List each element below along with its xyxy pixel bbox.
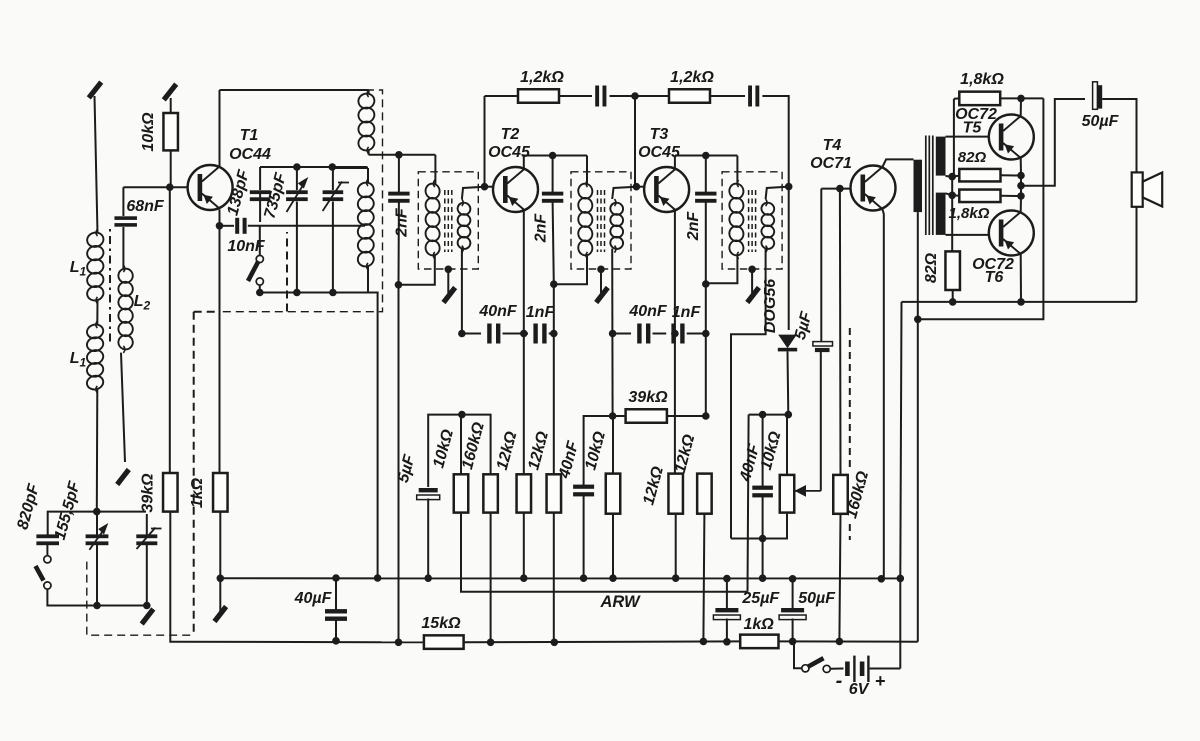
wire switch to oscillator bottom line — [259, 285, 261, 293]
node 2nF tap — [395, 151, 403, 159]
node output lower — [1017, 192, 1025, 200]
wire 2nF T2 top stub — [552, 156, 554, 194]
wire IF2 secondary top to T3 base — [612, 187, 636, 199]
wire volume node down to ARW — [748, 415, 749, 592]
wire 12k dropper to negative rail — [553, 513, 555, 643]
wire output node link — [1020, 176, 1022, 197]
wire 50uF ripple bottom stub — [792, 619, 794, 642]
node T5 collector / 1.8k — [1017, 95, 1025, 103]
svg-text:40nF: 40nF — [628, 303, 668, 320]
resistor 1.2kOhm neutralizing T3 — [669, 89, 710, 103]
node T2 base return — [458, 411, 466, 419]
node 50uF ripple top — [789, 575, 797, 583]
node IF1 bottom rail — [395, 639, 403, 647]
wire antenna lead — [95, 96, 98, 233]
switch wave-change blade — [248, 261, 259, 281]
wire 138pF top stub — [259, 167, 261, 190]
wire node to 160k — [462, 415, 491, 475]
transistor T2 OC45 — [493, 167, 538, 212]
wire 160k T4 to negative rail — [839, 514, 840, 642]
wire 40nF to 1nF — [503, 333, 529, 335]
wire base node to 5uF — [428, 415, 462, 487]
wire series capacitor to T3 branch — [610, 95, 636, 97]
resistor 1kOhm T1 emitter — [213, 473, 228, 512]
node T1 emitter / 10nF — [216, 222, 224, 230]
svg-text:82Ω: 82Ω — [958, 149, 987, 166]
coil IF transformer 2 primary — [577, 180, 594, 259]
loudspeaker — [1132, 172, 1163, 206]
wire T4 base to 160k bias — [839, 189, 842, 475]
wire T3 base node to 40nF — [584, 416, 613, 485]
svg-text:39kΩ: 39kΩ — [140, 473, 157, 513]
wire IF1 secondary top to T2 base — [462, 187, 485, 199]
wire top rail middle segment — [635, 95, 669, 97]
svg-text:-: - — [836, 670, 843, 692]
node 40nF T3 bottom — [580, 574, 588, 582]
svg-text:1,2kΩ: 1,2kΩ — [670, 69, 714, 86]
node oscillator return — [374, 574, 382, 582]
wire 25uF top stub — [726, 579, 728, 608]
dashed gang link horizontal — [194, 311, 220, 313]
variable capacitor 155.5pF — [86, 534, 109, 545]
capacitor series coupling 1 — [595, 86, 606, 107]
dashed box oscillator section — [220, 90, 383, 312]
switch antenna range blade — [36, 566, 44, 581]
wire emitter rail to chassis bus — [900, 302, 901, 579]
coil IF transformer 3 primary — [728, 180, 745, 259]
wire 155.5pF top stub — [96, 514, 98, 536]
dashed screen line detector lower — [849, 524, 851, 540]
wire node to 10k — [460, 415, 462, 475]
svg-text:25µF: 25µF — [741, 590, 780, 607]
wire tap link — [951, 177, 953, 196]
resistor 12kOhm T3 emitter — [668, 474, 683, 514]
svg-text:50µF: 50µF — [798, 590, 836, 607]
svg-text:2nF: 2nF — [533, 213, 550, 244]
wire 1.8k T5 left to tap — [953, 99, 955, 177]
wire L2 bottom — [121, 353, 125, 462]
wire switch to battery — [830, 668, 843, 670]
node 82 ohm rail — [949, 298, 957, 306]
wire primary bottom down — [917, 212, 919, 319]
node detector junction — [785, 183, 793, 191]
node 40uF top — [332, 574, 340, 582]
wire 40nF2 to 1nF2 — [653, 333, 667, 335]
wire 2nF T2 bottom stub — [553, 202, 554, 285]
wire IF2 bottom to 12k dropper — [553, 284, 555, 474]
switch on-off blade — [808, 658, 824, 667]
svg-text:T6: T6 — [985, 269, 1004, 286]
node T2 base — [481, 183, 489, 191]
chassis ground IF transformer 1 — [444, 288, 456, 303]
node T6 emitter rail — [1017, 298, 1025, 306]
coil L1 upper winding — [86, 229, 105, 304]
capacitor 1nF interstage 2 — [671, 324, 684, 344]
wire to T3 base — [636, 186, 644, 188]
wire base line down to 68nF — [122, 187, 124, 216]
wire T3 collector up — [674, 156, 676, 169]
node center tap lower — [948, 192, 956, 200]
node IF2 secondary bottom / 40nF — [609, 330, 617, 338]
dashed screen line detector upper — [849, 328, 851, 467]
oscillator coil tuned winding — [356, 179, 375, 270]
wire 39k resistor to negative rail — [170, 512, 173, 642]
capacitor 40uF decoupling — [325, 609, 347, 621]
node 2nF T2 top — [549, 152, 557, 160]
spacer3 — [674, 473, 677, 475]
wire IF2 primary bottom — [554, 255, 587, 284]
wire T1 base line — [123, 186, 188, 188]
wire IF transformer 2 shield to chassis — [600, 269, 602, 293]
svg-text:39kΩ: 39kΩ — [628, 389, 668, 406]
wire 10nF to oscillator coil tap — [248, 225, 365, 227]
wire collector rail to oscillator coil — [220, 89, 369, 91]
switch on-off contact circles — [802, 665, 831, 673]
wire to T2 base — [485, 186, 494, 188]
coil L2 coupling winding — [117, 265, 134, 353]
capacitor 68nF — [114, 216, 137, 226]
spacer4 — [377, 293, 379, 579]
arrow of 155.5pF tuning capacitor — [89, 523, 108, 550]
resistor 160kOhm T4 bias — [833, 475, 848, 514]
svg-text:1,2kΩ: 1,2kΩ — [520, 69, 564, 86]
resistor 160kOhm T2 bias — [483, 474, 498, 512]
node center tap upper — [948, 173, 956, 181]
chassis ground at bus left end — [215, 607, 227, 622]
svg-text:6V: 6V — [849, 681, 870, 698]
svg-text:2nF: 2nF — [394, 207, 411, 238]
svg-text:T5: T5 — [963, 120, 983, 137]
switch antenna range contact circles — [44, 556, 51, 589]
node 25uF bottom — [723, 638, 731, 646]
resistor 1kOhm decoupling — [740, 635, 778, 649]
wire tap down to 82 ohm T6 — [951, 195, 953, 251]
coil IF transformer 2 secondary — [609, 199, 624, 253]
coil IF transformer 3 secondary — [760, 199, 775, 253]
node trimmer bottom chassis — [143, 602, 151, 610]
core lines IF transformer 2 — [598, 190, 605, 252]
trimmer capacitor antenna — [136, 534, 157, 545]
node 10k T3 bottom — [609, 574, 617, 582]
node 735pF bottom — [293, 289, 301, 297]
wire to 40nF pair 1 — [462, 333, 481, 335]
resistor 10kOhm T3 base — [606, 474, 621, 514]
wire battery positive to bus riser — [870, 668, 901, 670]
wire IF transformer 3 shield to chassis — [751, 269, 753, 293]
capacitor 2nF converter output — [388, 192, 409, 203]
wire 820pF top / tuning top bus — [48, 512, 146, 536]
wire IF1 secondary bottom down — [461, 249, 463, 334]
node T4 emitter bottom — [878, 575, 886, 583]
wire T3 collector rail — [675, 155, 738, 157]
wire coil top stub — [368, 90, 370, 94]
capacitor 5uF AGC — [417, 488, 440, 500]
wire to 40nF pair 2 — [613, 333, 631, 335]
wire tap to 82 ohm T5 — [952, 176, 959, 177]
wire negative rail left — [173, 641, 424, 644]
node 40uF bottom rail — [332, 637, 340, 645]
svg-text:68nF: 68nF — [126, 198, 165, 215]
dashed box IF transformer 1 shield — [418, 172, 478, 269]
wire L1 bottom to tuning capacitor — [96, 389, 99, 512]
node primary bottom / supply — [914, 316, 922, 324]
transformer core lines — [926, 136, 933, 236]
svg-text:40nF: 40nF — [478, 303, 518, 320]
wire 1.2k to series capacitor 2 — [710, 95, 745, 97]
node IF2 primary bottom — [550, 280, 558, 288]
wire IF3 secondary bottom down — [731, 249, 766, 539]
svg-text:1kΩ: 1kΩ — [743, 616, 774, 633]
wire secondary top to T5 base — [946, 136, 989, 138]
node 2nF T3 top — [702, 152, 710, 160]
node T2 emitter / 40nF — [520, 330, 528, 338]
wire 12k IF3 dropper to negative rail — [703, 514, 704, 642]
node T4 base / 160k — [836, 185, 844, 193]
svg-text:15kΩ: 15kΩ — [421, 615, 461, 632]
oscillator coil feedback winding — [357, 90, 376, 154]
node trimmer top — [329, 163, 337, 171]
node output mid — [1017, 182, 1025, 190]
wire 39k to IF3 feed line — [667, 415, 706, 417]
node IF3 primary bottom — [702, 280, 710, 288]
wire 50uF ripple top stub — [792, 579, 794, 608]
wire chassis bus — [220, 577, 900, 579]
wire output node to 50uF — [1021, 99, 1085, 186]
wire supply line to output stage top rail — [918, 98, 1044, 319]
node switch bottom — [256, 289, 264, 297]
node IF transformer 2 shield ground — [597, 266, 605, 274]
node 5uF bottom — [424, 574, 432, 582]
wire lower winding top to tap — [946, 193, 953, 195]
wire oscillator bottom line — [260, 292, 368, 294]
node top rail T3 branch — [631, 92, 639, 100]
antenna connection slash — [89, 82, 101, 98]
wire oscillator bottom to bus — [368, 293, 378, 579]
svg-text:DOG56: DOG56 — [762, 279, 779, 333]
wire T5 emitter down — [1020, 158, 1022, 176]
node trimmer bottom — [329, 289, 337, 297]
resistor 82Ohm T6 bias lower — [945, 251, 960, 290]
wire IF2 primary feed — [586, 156, 588, 185]
wire 138pF bottom / switch feed — [259, 226, 261, 256]
svg-text:1nF: 1nF — [672, 304, 702, 321]
wire stub to chassis — [219, 578, 221, 612]
svg-text:10kΩ: 10kΩ — [140, 112, 157, 152]
core lines IF transformer 1 — [445, 190, 452, 252]
wire base node down to 39k resistor — [169, 187, 171, 473]
node 39k right — [702, 412, 710, 420]
wire 2nF bottom stub — [398, 202, 400, 285]
wire 40nF detector bottom stub — [762, 496, 764, 539]
node diode / volume top — [785, 411, 793, 419]
wire diode cathode to volume node — [787, 351, 790, 414]
wire tuned winding top stub — [367, 168, 369, 183]
wire 735pF top stub — [296, 167, 298, 190]
wire detector common to bus — [762, 539, 764, 579]
node IF transformer 1 shield ground — [445, 266, 453, 274]
transformer driver primary winding — [914, 160, 923, 212]
wire 10k T3 to bus — [612, 514, 614, 579]
coil L1 lower winding — [85, 321, 104, 393]
svg-text:+: + — [875, 671, 886, 691]
wire 1.2k to series capacitor — [559, 95, 592, 97]
wire oscillator coil bottom — [367, 266, 369, 293]
node 735pF top — [293, 163, 301, 171]
node chassis bus left end — [217, 575, 225, 583]
wire 735pF bottom stub — [296, 202, 298, 293]
node 50uF ripple bottom / switch — [789, 638, 797, 646]
wire 40uF top stub — [335, 578, 337, 611]
wire 2nF T3 bottom stub — [705, 202, 707, 285]
wire 40uF bottom stub — [335, 620, 337, 641]
wire top rail left segment — [485, 95, 519, 97]
node T3 base — [633, 183, 641, 191]
capacitor 10nF — [235, 218, 246, 234]
wire IF transformer 1 shield to chassis — [447, 269, 449, 293]
wire T1 collector up — [219, 90, 221, 167]
wire 40nF detector top stub — [762, 415, 764, 487]
node 12k dropper rail — [551, 639, 559, 647]
wire 5uF to T4 base — [820, 189, 822, 342]
svg-text:82Ω: 82Ω — [923, 252, 940, 283]
trimmer adjust line antenna — [137, 528, 162, 550]
capacitor 1nF interstage 1 — [533, 324, 546, 344]
node IF transformer 3 shield ground — [748, 266, 756, 274]
wire negative rail middle — [464, 640, 741, 643]
resistor 1.8kOhm T5 bias — [959, 92, 1000, 106]
transistor T1 OC44 — [188, 165, 233, 210]
wire T2 emitter down — [523, 211, 525, 475]
wire tuning bottom line — [47, 589, 146, 606]
wire T2 base to top rail — [484, 96, 486, 187]
svg-text:1,8kΩ: 1,8kΩ — [960, 71, 1004, 88]
wire emitter to 10nF — [220, 225, 235, 227]
coil IF transformer 1 secondary — [456, 199, 471, 253]
wiper arrow of volume potentiometer — [795, 485, 821, 497]
wire IF1 primary top feed — [434, 155, 436, 184]
wire IF3 secondary top to detector — [766, 187, 789, 199]
arrow of 735pF variable capacitor — [287, 177, 309, 212]
wire oscillator to IF1 primary — [369, 154, 436, 156]
wire volume pot top stub — [786, 415, 788, 475]
wire T6 collector up — [1020, 196, 1022, 213]
resistor 15kOhm decoupling — [424, 635, 464, 649]
wire IF3 primary feed — [736, 156, 738, 185]
wire ARW line — [461, 513, 748, 592]
wire 1k resistor to chassis bus — [219, 512, 221, 579]
node 12k T2 emitter bottom — [520, 574, 528, 582]
svg-text:1nF: 1nF — [526, 304, 556, 321]
wire 5uF to chassis bus — [427, 499, 429, 579]
wire 50uF to speaker — [1102, 99, 1136, 172]
capacitor 2nF T3 collector — [695, 192, 716, 203]
wire 82 ohm to output rail — [952, 290, 954, 302]
wire output emitter rail — [902, 301, 1137, 303]
capacitor 40nF T3 base — [573, 485, 594, 497]
wire trimmer bottom stub — [332, 202, 334, 293]
capacitor 138pF — [250, 190, 271, 201]
wire 82 ohm T5 to output node — [1001, 174, 1022, 176]
node T3 base return — [609, 412, 617, 420]
node 155.5pF bottom — [93, 602, 101, 610]
capacitor 5uF coupling to T4 — [813, 342, 833, 353]
switch wave-change contact circles — [256, 255, 263, 285]
wire to 39k bridge — [613, 415, 626, 417]
transformer secondary upper winding — [936, 137, 946, 176]
capacitor 820pF — [36, 534, 59, 545]
node IF1 secondary bottom / 40nF — [458, 330, 466, 338]
wire 1.8k T6 to output node — [1001, 195, 1022, 197]
wire 160k to negative rail — [490, 513, 492, 643]
wire wiper up to 5uF — [820, 352, 822, 491]
svg-text:50µF: 50µF — [1082, 113, 1120, 130]
dashed gang link vertical — [193, 312, 195, 636]
wire trimmer top stub — [332, 167, 334, 190]
transistor T3 OC45 — [644, 167, 689, 212]
resistor 12kOhm T2 emitter — [517, 474, 532, 512]
wire 155.5pF bottom stub — [96, 544, 98, 606]
svg-text:T3: T3 — [650, 126, 669, 143]
wire 820pF to switch — [46, 544, 48, 556]
wire speaker return — [1136, 207, 1138, 302]
node 25uF top — [723, 575, 731, 583]
capacitor series coupling 2 — [748, 86, 759, 107]
svg-text:T1: T1 — [240, 127, 259, 144]
capacitor 50uF ripple filter — [779, 608, 806, 620]
wire T2 collector rail — [524, 155, 587, 157]
wire IF1 bottom down to negative rail — [398, 285, 400, 643]
wire IF2 secondary bottom down — [611, 249, 613, 416]
svg-text:OC71: OC71 — [810, 155, 852, 172]
trimmer capacitor oscillator — [323, 190, 344, 201]
wire bus to battery positive — [899, 578, 901, 668]
resistor 10kOhm T1 base bias — [163, 113, 178, 150]
chassis ground at tuning capacitor — [142, 609, 154, 624]
resistor 12kOhm IF3 dropper — [697, 474, 712, 514]
node 1nF right — [550, 330, 558, 338]
svg-text:40µF: 40µF — [294, 590, 333, 607]
wire 1nF2 to IF3 feed line — [687, 333, 706, 335]
resistor 39kOhm T3 bias bridge — [626, 409, 667, 423]
wire feedback winding bottom — [368, 150, 370, 155]
wire detector junction to diode — [788, 187, 790, 330]
wire 12k T2 emitter to bus — [523, 513, 525, 579]
transistor T5 OC72 — [989, 115, 1034, 160]
wire 10k resistor to base node — [170, 150, 172, 187]
potentiometer 10kOhm volume — [780, 475, 795, 513]
wire 40nF to chassis bus — [583, 495, 585, 579]
capacitor 25uF decoupling — [713, 608, 740, 620]
svg-text:T4: T4 — [823, 137, 842, 154]
node 160k T4 rail — [836, 638, 844, 646]
wire trimmer top stub — [146, 514, 148, 536]
node tuning capacitor top — [93, 508, 101, 516]
wire L1 link — [96, 300, 98, 325]
wire T1 emitter down to 1k resistor — [219, 210, 221, 474]
node 1nF2 right — [702, 330, 710, 338]
transformer secondary lower winding — [936, 193, 946, 235]
dashed box IF transformer 2 shield — [571, 172, 631, 269]
wire top rail to detector junction — [762, 96, 788, 187]
wire IF3 feed down — [705, 284, 707, 416]
node battery positive bus — [897, 575, 905, 583]
wire oscillator cap top bus — [260, 166, 367, 168]
wire T2 collector up — [523, 156, 525, 169]
wire upper winding bottom to tap — [946, 175, 953, 178]
svg-text:1,8kΩ: 1,8kΩ — [949, 205, 990, 222]
svg-text:OC44: OC44 — [229, 146, 271, 163]
wire 1.8k T5 to supply corner — [1000, 97, 1043, 99]
